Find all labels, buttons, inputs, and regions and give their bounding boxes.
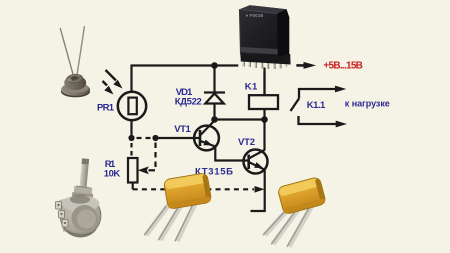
- wire dashed R1 wiper link: [154, 143, 156, 171]
- wire dash-dot R1 bottom to emitter: [132, 183, 134, 190]
- node E: relay bottom junction: [261, 116, 268, 123]
- node A: PR1 bottom junction: [128, 135, 134, 141]
- wire PR1 bottom: [130, 120, 132, 140]
- svg-text:K1.1: K1.1: [307, 100, 326, 111]
- photo background patch (hides rail behind photo): [238, 57, 296, 72]
- relay contact K1.1: [291, 89, 338, 124]
- relay coil K1: [249, 95, 278, 109]
- wire VT1 emitter to VT2 base: [215, 146, 248, 161]
- wire dashed R1 top: [130, 143, 132, 158]
- body base plate: [240, 52, 290, 65]
- transistor VT1: [194, 120, 219, 151]
- diode VD1: [204, 93, 225, 104]
- photo: transistor KT315 #2 (bottom-middle-right): [263, 176, 326, 246]
- wire VT2 emitter down: [251, 170, 265, 212]
- body: [239, 5, 289, 56]
- arrow to +5V supply: [297, 62, 317, 69]
- light arrow 2 at PR1: [103, 81, 114, 95]
- arrow on dash line to VT2 emitter: [255, 186, 265, 193]
- wire relay coil top: [263, 66, 265, 96]
- svg-text:+5В...15В: +5В...15В: [323, 60, 363, 71]
- photo: potentiometer (bottom-left): [56, 158, 102, 237]
- svg-text:к нагрузке: к нагрузке: [345, 98, 390, 108]
- photo: transistor KT315 #1 (bottom-middle-left): [144, 173, 211, 242]
- svg-text:VT2: VT2: [238, 137, 255, 148]
- photoresistor PR1: [118, 92, 146, 120]
- resistor R1 (potentiometer): [128, 158, 138, 183]
- photo: phototransistor (top-left): [60, 26, 90, 97]
- light arrow 1 at PR1: [106, 70, 123, 89]
- node D: diode bottom junction: [211, 116, 218, 123]
- svg-text:10K: 10K: [104, 168, 121, 179]
- photo: relay (top): [238, 5, 296, 95]
- wire relay coil top (redrawn over patch): [263, 68, 265, 96]
- wire diode bottom: [213, 104, 215, 121]
- wire dashed node link: [137, 137, 152, 139]
- svg-text:VT1: VT1: [174, 124, 191, 135]
- wire VT1 base: [156, 137, 201, 139]
- wire relay coil bottom: [263, 110, 265, 151]
- wire collector rail: [215, 118, 265, 120]
- svg-text:PR1: PR1: [97, 102, 115, 113]
- node B: VT1 base junction: [152, 135, 158, 141]
- svg-text:K1: K1: [245, 81, 258, 92]
- wire top rail: [132, 64, 306, 66]
- node C: top rail / diode junction: [211, 62, 218, 69]
- wire diode top: [213, 66, 215, 93]
- R1 wiper arrow: [138, 166, 155, 174]
- wire PR1 top: [130, 65, 132, 93]
- pins: [244, 57, 287, 69]
- svg-text:КД522: КД522: [175, 96, 202, 107]
- transistor VT2: [244, 150, 268, 174]
- svg-text:● Р00З8: ● Р00З8: [246, 13, 264, 18]
